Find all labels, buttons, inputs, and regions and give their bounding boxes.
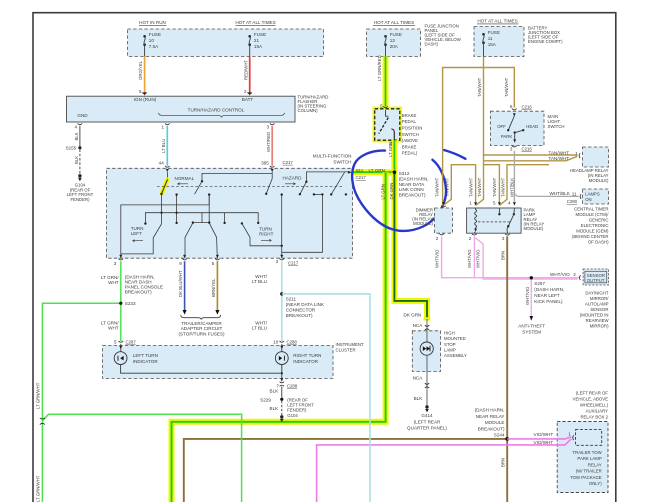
svg-text:LEFT TURN: LEFT TURN [133, 353, 158, 358]
svg-text:TAN/WHT: TAN/WHT [501, 177, 506, 197]
dimmer relay box [434, 208, 452, 233]
svg-text:OFF: OFF [497, 124, 506, 129]
wire LT GRN from C217 511 to S312 (highlighted) [353, 169, 395, 175]
normal feed vertical [161, 194, 163, 224]
svg-text:2: 2 [573, 272, 576, 277]
MFS bottom pin 9 [183, 255, 186, 258]
svg-text:SWITCH: SWITCH [402, 132, 419, 137]
tan bridge B3 [500, 165, 549, 206]
svg-text:FUSE: FUSE [254, 32, 266, 37]
svg-text:3: 3 [510, 146, 513, 151]
svg-text:5: 5 [212, 261, 215, 266]
tan bus wire [443, 68, 515, 206]
svg-text:1: 1 [575, 151, 578, 156]
svg-text:LT GRN: LT GRN [380, 184, 385, 199]
svg-text:NEAR LEFT: NEAR LEFT [534, 293, 559, 298]
svg-text:TURN/HAZARD CONTROL: TURN/HAZARD CONTROL [188, 108, 245, 113]
blade to pin 9 [185, 223, 193, 258]
blade center-right [242, 223, 282, 245]
splice S244 [505, 437, 509, 441]
svg-text:DASH): DASH) [425, 42, 439, 47]
svg-text:ENGINE COMPT): ENGINE COMPT) [528, 39, 563, 44]
svg-text:STOP: STOP [444, 342, 456, 347]
hazard blade 3 [331, 172, 344, 194]
stub vertical to contact bar [201, 213, 203, 223]
svg-text:2: 2 [469, 236, 472, 241]
svg-text:BRN/YEL: BRN/YEL [211, 278, 216, 297]
svg-text:ADAPTER CIRCUIT: ADAPTER CIRCUIT [181, 326, 223, 331]
wire LT GRN/WHT branch to left margin [42, 303, 120, 502]
svg-text:MODULE (CTM)/: MODULE (CTM)/ [576, 212, 610, 217]
ground G414 [425, 405, 428, 408]
tan bridge B2 [484, 165, 500, 206]
svg-text:5: 5 [380, 104, 383, 109]
svg-text:3: 3 [502, 236, 505, 241]
svg-text:7.5A: 7.5A [149, 44, 159, 49]
svg-text:TAN/WHT: TAN/WHT [445, 177, 450, 197]
wire LT GRN/WHT pin3 to S233 to C287 [120, 261, 122, 341]
svg-text:ONLY): ONLY) [589, 481, 602, 486]
svg-text:HIGH: HIGH [444, 331, 455, 336]
flasher pin 5 [143, 92, 146, 95]
svg-text:FUSE: FUSE [149, 32, 161, 37]
svg-text:HAZARD: HAZARD [283, 176, 303, 181]
svg-text:LT BLU: LT BLU [161, 139, 166, 153]
svg-text:(DASH HARN,: (DASH HARN, [399, 177, 429, 182]
wire WHT/LT BLU branch right and down [282, 294, 370, 502]
park relay bottom pins [472, 234, 477, 235]
svg-text:DK GRN: DK GRN [404, 312, 422, 317]
svg-text:7: 7 [276, 383, 279, 388]
svg-text:CENTRAL TIMER: CENTRAL TIMER [574, 206, 608, 211]
pin 2 vertical [281, 195, 283, 259]
svg-text:LAMP: LAMP [444, 347, 456, 352]
svg-text:S233: S233 [125, 301, 136, 306]
svg-text:C288: C288 [287, 383, 298, 388]
headlamp relay box [583, 147, 609, 167]
contact rail H3 to pin 3 [121, 195, 209, 259]
svg-text:44: 44 [159, 160, 165, 165]
stub V6 [224, 213, 226, 223]
svg-text:11: 11 [488, 36, 493, 41]
svg-text:BREAKOUT): BREAKOUT) [125, 290, 152, 295]
svg-text:S155: S155 [66, 146, 77, 151]
svg-text:MODULE): MODULE) [524, 226, 544, 231]
wire WHT/LT BLU from pin 2 to cluster [281, 261, 283, 341]
svg-text:S244: S244 [494, 433, 505, 438]
svg-text:PARK: PARK [501, 134, 513, 139]
hazard blade 1 [266, 179, 272, 194]
svg-text:VIO/WHT: VIO/WHT [534, 432, 554, 437]
right rail V9 [282, 195, 323, 253]
svg-text:(DASH HARN,: (DASH HARN, [534, 287, 564, 292]
stop lamp symbol [420, 342, 433, 355]
svg-text:ON: ON [585, 197, 591, 202]
svg-text:LT GRN/: LT GRN/ [101, 275, 119, 280]
wire BLK to S229 [281, 387, 283, 400]
svg-text:WHT/VIO: WHT/VIO [467, 249, 472, 268]
svg-text:SENSOR: SENSOR [590, 307, 608, 312]
svg-text:WHEELWELL): WHEELWELL) [580, 403, 609, 408]
turn/hazard flasher box [67, 96, 296, 122]
hand-drawn blue circle annotation [352, 151, 446, 231]
splice S229 [280, 398, 283, 401]
park relay contacts [498, 208, 500, 213]
svg-text:1: 1 [469, 201, 472, 206]
svg-text:WHT/: WHT/ [255, 320, 267, 325]
MFS bottom pin 3 [119, 255, 122, 258]
svg-text:(W/ TRAILER: (W/ TRAILER [576, 469, 602, 474]
svg-text:BLK: BLK [270, 406, 280, 411]
MFS bottom pin 2 [280, 255, 283, 258]
wire BLK to ground (dashed) [79, 149, 81, 174]
wire WHT/VIO to anti-theft [530, 278, 532, 316]
svg-text:INDICATOR: INDICATOR [293, 359, 319, 364]
svg-text:SENSOR: SENSOR [587, 273, 605, 278]
main light switch box [490, 111, 544, 145]
splice marks at margin junction [40, 418, 45, 425]
svg-text:MODULE): MODULE) [413, 221, 433, 226]
svg-text:NCA: NCA [413, 376, 424, 381]
svg-text:COLUMN): COLUMN) [298, 108, 319, 113]
splice S267 [530, 276, 533, 279]
brake pedal position switch (yellow highlighted box) [375, 109, 400, 140]
svg-text:TOW PACKAGE: TOW PACKAGE [570, 475, 602, 480]
blade up to H1 [195, 181, 203, 194]
wire LT GRN/RED highlighted (fuse 13 to brake switch) [383, 56, 389, 108]
wire from pin 385 [271, 172, 273, 179]
svg-text:DK GRN: DK GRN [389, 183, 394, 200]
svg-text:NEAR RELAY: NEAR RELAY [476, 414, 505, 419]
svg-text:HOT AT ALL TIMES: HOT AT ALL TIMES [374, 20, 414, 25]
svg-text:WHT/: WHT/ [255, 274, 267, 279]
svg-text:RELAY: RELAY [588, 462, 602, 467]
svg-text:(STOP/TURN FUSES): (STOP/TURN FUSES) [178, 332, 225, 337]
svg-text:TAN/WHT: TAN/WHT [468, 177, 473, 197]
svg-text:20A: 20A [390, 44, 399, 49]
svg-text:BREAKOUT): BREAKOUT) [286, 313, 313, 318]
svg-text:OF DASH): OF DASH) [588, 239, 609, 244]
svg-text:S267: S267 [534, 281, 545, 286]
svg-text:RELAY BOX 2: RELAY BOX 2 [580, 415, 608, 420]
LAMPS ON box [583, 189, 609, 204]
wire WHT/BLK lamps-on tap [514, 194, 578, 197]
wire DK GRN from S312 to stop lamp (highlighted) [394, 172, 427, 318]
svg-text:BLK: BLK [74, 156, 79, 164]
svg-text:ELECTRONIC: ELECTRONIC [581, 223, 609, 228]
svg-text:TAN/WHT: TAN/WHT [549, 150, 570, 155]
svg-text:1: 1 [161, 124, 164, 129]
dimmer pin 2 bottom [439, 234, 444, 235]
svg-text:AUTOLAMP: AUTOLAMP [585, 302, 609, 307]
park lamp relay box [467, 208, 521, 233]
wire LT GRN brake switch to S312 (highlighted) [391, 140, 397, 172]
svg-text:10: 10 [149, 38, 155, 43]
fuse 10 7.5A [143, 32, 161, 56]
svg-text:(MOUNTED IN: (MOUNTED IN [580, 313, 609, 318]
svg-text:VEHICLE, ABOVE: VEHICLE, ABOVE [573, 396, 608, 401]
svg-text:TAN/WHT: TAN/WHT [477, 177, 482, 197]
svg-text:21: 21 [254, 38, 260, 43]
svg-text:FENDER): FENDER) [287, 407, 307, 412]
svg-text:REARVIEW: REARVIEW [586, 318, 610, 323]
svg-text:MIRROR/: MIRROR/ [590, 296, 609, 301]
tan bridge B1 dimmer to park pin1 [443, 165, 475, 206]
svg-text:3: 3 [114, 261, 117, 266]
svg-text:C216: C216 [522, 146, 533, 151]
svg-text:2: 2 [276, 259, 279, 264]
wire VIO/WHT lower from left [317, 439, 572, 502]
svg-text:WHT/VIO: WHT/VIO [525, 286, 530, 305]
tan wire headlamp feed lower [484, 156, 578, 161]
svg-text:WHT/VIO: WHT/VIO [476, 249, 481, 268]
rail V5 [208, 195, 210, 223]
svg-text:LT GRN: LT GRN [388, 142, 393, 157]
svg-text:NCA: NCA [413, 323, 424, 328]
svg-text:FENDER): FENDER) [70, 197, 90, 202]
svg-text:TRAILER TOW: TRAILER TOW [572, 450, 602, 455]
flasher pin 2 [248, 92, 251, 95]
svg-text:WHT/BLK: WHT/BLK [550, 191, 571, 196]
svg-text:LT GRN/RED: LT GRN/RED [377, 55, 382, 81]
svg-text:PARK LAMP: PARK LAMP [577, 456, 601, 461]
thin LT GRN branch wire (from margin to x241 down) [42, 414, 241, 502]
svg-text:DK BLU/WHT: DK BLU/WHT [178, 270, 183, 297]
svg-text:3: 3 [266, 124, 269, 129]
top link horizontal H1 [202, 173, 272, 181]
svg-text:SYSTEM: SYSTEM [522, 329, 541, 334]
svg-text:10: 10 [273, 340, 279, 345]
wire ORG/YEL [144, 56, 146, 92]
svg-text:BRAKE: BRAKE [402, 113, 417, 118]
svg-text:2: 2 [436, 236, 439, 241]
svg-text:MODULE): MODULE) [589, 178, 609, 183]
svg-text:CONNECTOR: CONNECTOR [286, 308, 316, 313]
svg-text:5: 5 [493, 201, 496, 206]
stub contact [176, 195, 178, 223]
svg-text:RED/WHT: RED/WHT [243, 60, 248, 80]
indicator ground bus [121, 365, 282, 382]
fuse 21 15A [248, 32, 266, 56]
svg-text:LT GRN/WHT: LT GRN/WHT [36, 382, 41, 409]
svg-text:ORG/YEL: ORG/YEL [138, 60, 143, 80]
svg-text:BATT: BATT [242, 97, 254, 102]
svg-text:KICK PANEL): KICK PANEL) [534, 299, 563, 304]
svg-text:LT GRN/WHT: LT GRN/WHT [36, 475, 41, 502]
highlighter end cap [424, 317, 431, 320]
splice S155 [78, 146, 81, 149]
wire WHT/VIO second strand [475, 238, 578, 280]
svg-text:ANTI-THEFT: ANTI-THEFT [518, 323, 545, 328]
svg-text:LT BLU: LT BLU [252, 279, 267, 284]
MFS interior wiring [121, 172, 350, 258]
svg-text:5: 5 [114, 340, 117, 345]
svg-text:9: 9 [179, 261, 182, 266]
fuse junction panel box (fuse 13) [367, 29, 421, 56]
sensor output box [583, 269, 608, 285]
svg-text:BRN: BRN [500, 251, 505, 260]
wire BLK flasher gnd [79, 126, 81, 148]
svg-text:HOT AT ALL TIMES: HOT AT ALL TIMES [477, 18, 517, 23]
svg-text:1: 1 [568, 431, 571, 436]
wire BLK dashed to ground [281, 401, 283, 415]
svg-text:TAN/WHT: TAN/WHT [504, 77, 509, 97]
contact bar H5 [193, 222, 209, 224]
ground G104 right [280, 415, 283, 418]
svg-text:BLK: BLK [414, 396, 424, 401]
svg-text:13: 13 [390, 38, 396, 43]
fuse panel box (HOT IN RUN / HOT AT ALL TIMES) [128, 29, 324, 56]
hazard output rail H2 to right edge pin [306, 172, 349, 182]
svg-text:(LEFT REAR: (LEFT REAR [414, 419, 441, 424]
brace under TURN/HAZARD CONTROL [159, 113, 285, 118]
wire RED/WHT [249, 56, 251, 92]
brace trailer/camper [181, 315, 221, 320]
MLS internals [513, 113, 516, 116]
svg-text:TAN/WHT: TAN/WHT [492, 177, 497, 197]
svg-text:BLK: BLK [74, 132, 79, 140]
svg-text:G104: G104 [287, 413, 298, 418]
wire BRN/YEL from pin 5 [216, 261, 218, 310]
instrument cluster box [103, 346, 334, 379]
svg-text:POSITION: POSITION [402, 126, 423, 131]
svg-text:511: 511 [356, 168, 364, 173]
wire from pin 44 [166, 172, 168, 179]
left blade to pin 3 branch [121, 224, 162, 254]
svg-text:DAY/NIGHT: DAY/NIGHT [585, 291, 608, 296]
svg-text:C288: C288 [287, 340, 298, 345]
svg-text:WHT: WHT [108, 280, 119, 285]
svg-text:HOT IN RUN: HOT IN RUN [139, 20, 166, 25]
fuse 11 15A [482, 30, 500, 56]
svg-text:INSTRUMENT: INSTRUMENT [336, 342, 365, 347]
svg-text:NORMAL: NORMAL [175, 176, 195, 181]
multi-function switch box [107, 168, 353, 258]
svg-text:4: 4 [508, 201, 511, 206]
svg-text:HOT AT ALL TIMES: HOT AT ALL TIMES [235, 20, 275, 25]
svg-text:S312: S312 [399, 171, 410, 176]
left turn indicator [120, 344, 122, 352]
svg-text:AUXILIARY: AUXILIARY [586, 409, 609, 414]
svg-text:LT BLU: LT BLU [252, 326, 267, 331]
long rail H4 [145, 213, 258, 224]
svg-text:FUSE: FUSE [488, 30, 500, 35]
trailer tow park lamp relay inner box [576, 430, 602, 446]
MFS bottom pin 5 [216, 255, 219, 258]
svg-text:(NEAR DATA LINK: (NEAR DATA LINK [286, 302, 325, 307]
svg-text:OUTPUT: OUTPUT [587, 278, 605, 283]
svg-text:(LEFT REAR OF: (LEFT REAR OF [576, 390, 609, 395]
svg-text:TAN/WHT: TAN/WHT [435, 177, 440, 197]
mechanical link dashed [157, 185, 344, 187]
svg-text:2: 2 [244, 89, 247, 94]
short bar at 313.8-322.4 [314, 193, 323, 195]
svg-text:(BEHIND CENTER: (BEHIND CENTER [572, 234, 609, 239]
svg-text:ASSEMBLY: ASSEMBLY [444, 353, 467, 358]
svg-text:TAN/WHT: TAN/WHT [549, 156, 570, 161]
svg-text:PEDAL: PEDAL [402, 119, 417, 124]
NCA connector below stop lamp [426, 371, 428, 405]
svg-text:INDICATOR: INDICATOR [133, 359, 159, 364]
park relay coil [475, 208, 477, 229]
connector C288 below cluster [280, 378, 283, 381]
svg-text:LT GRN: LT GRN [369, 168, 385, 173]
svg-text:385: 385 [261, 160, 269, 165]
svg-text:C287: C287 [126, 340, 137, 345]
svg-text:PEDAL): PEDAL) [402, 151, 418, 156]
svg-text:CLUSTER: CLUSTER [336, 348, 356, 353]
wire WHT/VIO from park relay pin 2 [473, 236, 475, 277]
svg-text:BREAKOUT): BREAKOUT) [399, 192, 426, 197]
svg-text:HEAD: HEAD [526, 124, 538, 129]
svg-text:IGN (RUN): IGN (RUN) [134, 97, 157, 102]
svg-text:C217: C217 [288, 260, 299, 265]
svg-text:15A: 15A [488, 42, 497, 47]
wire BRN park relay pin3 down, left and down [184, 236, 507, 502]
svg-text:LT GRN/: LT GRN/ [101, 320, 119, 325]
fuse 13 20A [384, 32, 402, 56]
auxiliary relay box 2 outer [557, 422, 608, 493]
wire VIO/WHT upper to trailer relay [507, 437, 571, 439]
wire WHT/BLK MLS pin3 to park relay pin 4 [513, 151, 515, 206]
svg-text:C217: C217 [283, 160, 294, 165]
svg-text:G414: G414 [421, 413, 433, 418]
contact dots [144, 180, 347, 247]
svg-text:LEFT: LEFT [131, 231, 142, 236]
svg-text:GND: GND [77, 113, 88, 118]
svg-text:MODULE (GEM): MODULE (GEM) [576, 228, 609, 233]
wire LT GRN down-left branch (highlighted, to bottom elbow) [172, 172, 386, 502]
svg-text:SWITCH: SWITCH [548, 124, 565, 129]
svg-text:WHT: WHT [108, 326, 119, 331]
svg-text:BLK: BLK [270, 389, 280, 394]
wire WHT/RED pin3 to pin385 [271, 126, 273, 166]
svg-text:(ABOVE: (ABOVE [402, 138, 418, 143]
svg-text:WHT/VIO: WHT/VIO [550, 272, 570, 277]
svg-text:MIRROR): MIRROR) [590, 324, 609, 329]
svg-text:TAN/WHT: TAN/WHT [477, 77, 482, 97]
battery junction box (fuse 11) [474, 27, 524, 57]
svg-text:LINK CONN: LINK CONN [399, 187, 424, 192]
svg-text:RIGHT: RIGHT [259, 232, 273, 237]
svg-text:BRAKE: BRAKE [402, 144, 417, 149]
MFS right edge pin 511 / C217 [348, 171, 351, 174]
svg-text:11: 11 [572, 191, 577, 196]
svg-text:RIGHT TURN: RIGHT TURN [293, 353, 321, 358]
svg-text:MOUNTED: MOUNTED [444, 336, 466, 341]
brake switch internals [386, 110, 389, 116]
svg-text:C216: C216 [522, 104, 533, 109]
svg-text:15A: 15A [254, 44, 263, 49]
right turn indicator [281, 344, 283, 352]
svg-text:C217: C217 [356, 175, 367, 180]
svg-text:S211: S211 [286, 297, 297, 302]
blade to pin 5 [209, 223, 217, 258]
svg-text:WHT/RED: WHT/RED [266, 132, 271, 152]
svg-text:TRAILER/CAMPER: TRAILER/CAMPER [181, 321, 222, 326]
splice S211 [280, 292, 283, 295]
wire DK BLU/WHT from pin 9 [184, 261, 186, 310]
NORMAL blade (yellow highlighted) [162, 180, 168, 193]
svg-text:(DASH HARN,: (DASH HARN, [475, 408, 505, 413]
svg-text:C280: C280 [567, 199, 578, 204]
wire TAN/WHT from fuse 11 [476, 57, 484, 206]
svg-text:BREAKOUT): BREAKOUT) [478, 426, 505, 431]
svg-text:NEAR DATA: NEAR DATA [399, 182, 426, 187]
high mounted stop lamp assembly box [412, 331, 440, 372]
svg-text:5: 5 [139, 89, 142, 94]
ground G104 left [78, 174, 81, 177]
